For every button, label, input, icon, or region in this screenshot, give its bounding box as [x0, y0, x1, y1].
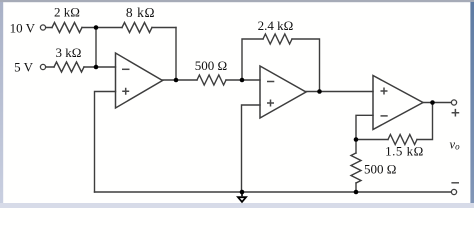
svg-text:3 kΩ: 3 kΩ — [56, 45, 82, 60]
pin minus op-amp 2 — [267, 81, 274, 83]
resistor 3 kΩ — [54, 62, 84, 72]
wire op-amp 2 noninverting input to ground — [242, 105, 261, 192]
resistor 2 kΩ — [52, 23, 82, 33]
wire 10V input row — [46, 27, 97, 29]
node op-amp 2 inverting — [240, 78, 245, 83]
svg-text:5 V: 5 V — [14, 60, 34, 75]
pin plus op-amp 1 — [122, 88, 129, 95]
label output plus sign — [452, 109, 460, 117]
wire feedback left rise — [242, 39, 263, 80]
node junction A — [94, 25, 99, 30]
op-amp U3 — [373, 76, 423, 130]
wire bottom rail — [95, 191, 452, 193]
node 500 bottom rail — [354, 190, 359, 195]
resistor 8 kΩ — [122, 23, 152, 33]
wire op-amp 2 output to op-amp 3 — [306, 91, 373, 93]
node junction B — [94, 65, 99, 70]
svg-text:500 Ω: 500 Ω — [364, 162, 396, 177]
op-amp U2 — [260, 66, 306, 118]
terminal output minus — [451, 189, 456, 194]
wire 5V input row — [46, 66, 97, 68]
wire op-amp 1 noninverting input to ground rail — [95, 92, 116, 193]
resistor 500 Ω series — [197, 75, 226, 85]
node op-amp 3 feedback — [430, 100, 435, 105]
wire node to 500 vertical top — [355, 140, 357, 154]
node op-amp 1 output — [174, 78, 179, 83]
pin plus op-amp 2 — [267, 100, 274, 107]
wire op-amp 3 output to terminal — [423, 102, 452, 104]
svg-text:10 V: 10 V — [10, 21, 36, 36]
wire feedback drop to output node — [175, 28, 177, 81]
op-amp U1 — [116, 53, 163, 108]
frame right border — [470, 2, 474, 203]
frame top border — [0, 0, 474, 2]
label output minus sign — [451, 182, 459, 184]
svg-text:2.4 kΩ: 2.4 kΩ — [258, 18, 294, 33]
resistor 2.4 kΩ — [263, 34, 292, 44]
wire op-amp 1 output — [163, 79, 198, 81]
resistor 1.5 kΩ — [388, 135, 417, 145]
terminal output plus — [451, 100, 456, 105]
wire 8k to drop — [152, 27, 176, 29]
node 1.5k/500 junction — [354, 137, 359, 142]
node ground junction — [240, 190, 245, 195]
frame bottom strip — [0, 203, 474, 208]
pin minus op-amp 1 — [122, 68, 130, 70]
wire 500 to op-amp 2 inverting input — [226, 79, 260, 81]
wire node B to op-amp 1 inverting input — [96, 66, 116, 68]
wire 1.5k to node — [356, 139, 388, 141]
node op-amp 2 output — [317, 89, 322, 94]
wire op-amp 3 inverting input — [356, 115, 373, 139]
wire feedback right drop — [292, 39, 320, 92]
wire 500 vertical bottom — [355, 183, 357, 192]
svg-text:1.5 kΩ: 1.5 kΩ — [385, 144, 424, 159]
pin minus op-amp 3 — [381, 115, 388, 117]
svg-text:8 kΩ: 8 kΩ — [126, 5, 155, 20]
terminal 5 V — [40, 64, 45, 69]
pin plus op-amp 3 — [381, 88, 388, 95]
wire node A to 8k — [96, 27, 122, 29]
ground symbol — [238, 192, 246, 202]
wire output feedback drop — [417, 103, 433, 140]
resistor 500 Ω shunt — [351, 153, 361, 183]
frame left border — [0, 2, 3, 203]
svg-text:500 Ω: 500 Ω — [195, 58, 227, 73]
terminal 10 V — [40, 25, 45, 30]
svg-text:2 kΩ: 2 kΩ — [54, 5, 80, 20]
wire node A down to node B — [95, 28, 97, 68]
